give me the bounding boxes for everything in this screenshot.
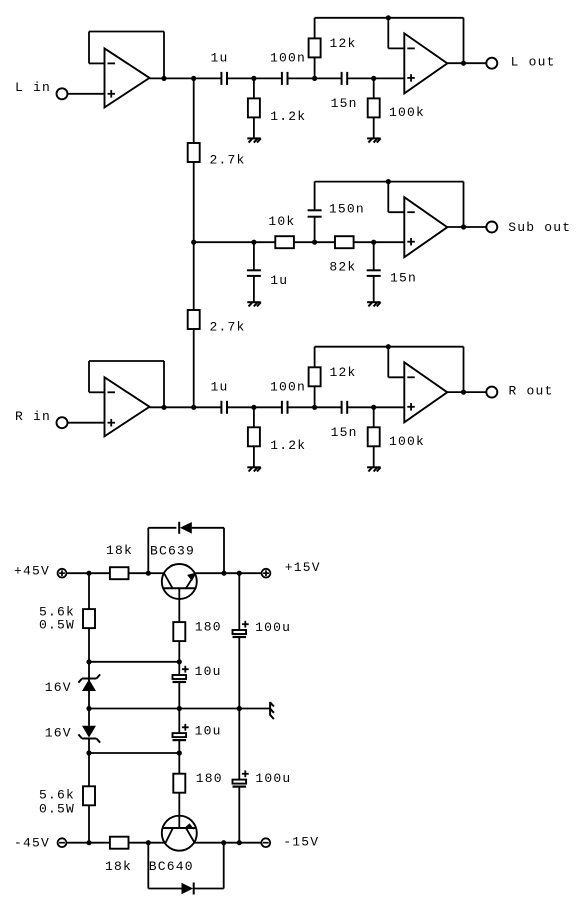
wire R 12k to top rail xyxy=(314,347,316,368)
op-amp R buffer xyxy=(105,377,150,436)
wire sub minus input xyxy=(388,211,404,213)
node mid rail / 100u xyxy=(237,706,242,711)
output terminal L xyxy=(486,58,497,69)
wire node1 link xyxy=(89,661,179,663)
wire BC640 base lead xyxy=(178,793,180,828)
label R in xyxy=(15,409,51,424)
wire into BC640 xyxy=(148,842,165,844)
node R shunt 2 xyxy=(371,405,376,410)
ground under 1.2k (L) xyxy=(247,138,260,142)
label 12k (R) xyxy=(330,365,357,380)
svg-text:180: 180 xyxy=(195,620,222,635)
wire R buffer output xyxy=(150,406,194,408)
capacitor 15n (L) xyxy=(342,72,348,85)
op-amp R output stage xyxy=(404,362,447,422)
node -15V tap xyxy=(237,840,242,845)
ground under 1u (sub) xyxy=(247,302,260,306)
svg-text:0.5W: 0.5W xyxy=(39,802,75,817)
wire 10u to mid rail xyxy=(178,682,180,709)
wire diode loop bottom a xyxy=(148,888,181,890)
label 100k (L) xyxy=(389,105,425,120)
svg-text:100k: 100k xyxy=(389,105,425,120)
node zener top xyxy=(86,659,91,664)
wire diode loop left (top) xyxy=(147,528,149,573)
wire to +15V terminal xyxy=(239,572,261,574)
terminal -45V xyxy=(58,838,67,847)
label 100k (R) xyxy=(389,434,425,449)
wire sub 150n to top rail xyxy=(314,182,316,211)
wire summing column lower xyxy=(193,329,195,407)
resistor 2.7k (upper) xyxy=(188,143,200,162)
wire diode loop right (bottom) xyxy=(223,843,225,889)
wire diode loop right (top) xyxy=(223,528,225,573)
zener diode 16V (lower) xyxy=(78,709,100,743)
wire R shunt-2 down xyxy=(373,407,375,427)
svg-text:0.5W: 0.5W xyxy=(39,618,75,633)
svg-text:L in: L in xyxy=(15,80,51,95)
svg-text:+15V: +15V xyxy=(285,560,321,575)
node L shunt 2 xyxy=(371,76,376,81)
capacitor 1u (R) xyxy=(221,401,227,414)
svg-text:1.2k: 1.2k xyxy=(270,109,306,124)
node emitter / diode loop xyxy=(221,571,226,576)
resistor 12k (R) xyxy=(309,367,321,386)
label 1u (R) xyxy=(211,379,229,394)
transistor Q2 BC640 xyxy=(162,816,197,851)
label 180 (bottom) xyxy=(196,771,223,786)
wire sub 15n to ground xyxy=(373,276,375,302)
wire sub minus drop xyxy=(387,182,389,213)
wire 5.6k bottom lead xyxy=(88,753,90,786)
wire into BC639 xyxy=(148,572,164,574)
wire R buffer feedback right xyxy=(163,361,165,407)
wire R output xyxy=(447,391,486,393)
svg-text:82k: 82k xyxy=(329,259,356,274)
svg-text:2.7k: 2.7k xyxy=(210,320,246,335)
label L out xyxy=(511,55,556,70)
svg-text:5.6k: 5.6k xyxy=(39,788,75,803)
wire R main 4 xyxy=(347,406,404,408)
node R output tap xyxy=(461,390,466,395)
svg-text:10u: 10u xyxy=(195,723,222,738)
svg-text:10u: 10u xyxy=(195,664,222,679)
wire sub main 2 xyxy=(294,241,335,243)
svg-text:-15V: -15V xyxy=(283,835,319,850)
label -15V xyxy=(283,835,319,850)
label 1u (L) xyxy=(211,51,229,66)
label 150n (sub) xyxy=(329,201,365,216)
svg-text:+45V: +45V xyxy=(14,564,50,579)
label +45V xyxy=(14,564,50,579)
svg-text:180: 180 xyxy=(196,771,223,786)
label -45V xyxy=(14,836,50,851)
wire L main 4 xyxy=(347,77,404,79)
node +45V / 5.6k xyxy=(86,571,91,576)
label 18k (bottom) xyxy=(105,859,132,874)
capacitor 150n (sub feedback) xyxy=(308,210,322,216)
wire 100u upper to mid xyxy=(238,637,240,709)
input terminal R in xyxy=(57,417,68,428)
label 1.2k (L) xyxy=(270,109,306,124)
wire 180 bottom lead xyxy=(178,753,180,774)
label 1.2k (R) xyxy=(270,438,306,453)
output terminal R xyxy=(486,387,497,398)
node sub output tap xyxy=(461,224,466,229)
wire L buffer feedback left xyxy=(88,32,90,64)
wire 5.6k to -45V rail xyxy=(88,805,90,842)
resistor 10k (sub) xyxy=(275,236,294,248)
wire 100u column top xyxy=(238,573,240,630)
resistor 12k (L) xyxy=(309,38,321,57)
wire 100u lower to -15V rail xyxy=(238,787,240,843)
svg-text:15n: 15n xyxy=(331,96,358,111)
wire R buffer feedback left xyxy=(88,361,90,392)
wire L input xyxy=(68,93,105,95)
node mid rail / 10u xyxy=(177,706,182,711)
node zener mid xyxy=(86,706,91,711)
diode (bottom, cathode right) xyxy=(182,883,194,895)
wire L shunt-2 down xyxy=(373,78,375,98)
label 12k (L) xyxy=(330,36,357,51)
wire 10u top lead xyxy=(178,662,180,675)
svg-text:15n: 15n xyxy=(390,271,417,286)
svg-text:18k: 18k xyxy=(105,859,132,874)
wire 10u lower to node2 xyxy=(178,740,180,753)
zener diode 16V (upper) xyxy=(78,674,100,708)
svg-text:-45V: -45V xyxy=(14,836,50,851)
wire R main 1 xyxy=(194,406,222,408)
wire R input xyxy=(68,422,105,424)
ground under 100k (R) xyxy=(367,467,381,471)
node R top rail minus tap xyxy=(386,344,391,349)
wire sub main 3 xyxy=(354,241,405,243)
wire sub 15n down xyxy=(373,242,375,270)
label 100n (R) xyxy=(270,379,306,394)
node summing R xyxy=(191,405,196,410)
wire R shunt-1 down xyxy=(253,407,255,427)
wire L main 2 xyxy=(227,77,282,79)
wire L buffer minus input xyxy=(89,62,105,64)
label BC639 xyxy=(150,544,195,559)
wire -45V rail a xyxy=(66,842,89,844)
node base filter top xyxy=(177,659,182,664)
node base filter bottom xyxy=(177,750,182,755)
label 15n (sub) xyxy=(390,271,417,286)
svg-text:16V: 16V xyxy=(45,680,72,695)
wire L output xyxy=(447,62,486,64)
node sub top rail minus tap xyxy=(386,179,391,184)
node L shunt 1 xyxy=(251,76,256,81)
node +15V tap xyxy=(237,571,242,576)
resistor 18k (bottom) xyxy=(110,837,129,849)
label 16V (upper) xyxy=(45,680,72,695)
node summing L xyxy=(191,76,196,81)
node R feedback cap tap xyxy=(312,405,317,410)
terminal +15V xyxy=(262,569,271,578)
node R buffer output tap xyxy=(161,405,166,410)
wire L shunt-2 to ground xyxy=(373,117,375,138)
label 16V (lower) xyxy=(45,726,72,741)
ground under 1.2k (R) xyxy=(247,467,260,471)
wire sub feedback right drop xyxy=(463,182,465,227)
ground under 100k (L) xyxy=(367,138,381,142)
wire L minus drop xyxy=(387,18,389,49)
wire R buffer minus input xyxy=(89,391,105,393)
node BC640 input xyxy=(146,840,151,845)
label 100u (lower) xyxy=(255,771,291,786)
svg-text:R out: R out xyxy=(509,384,554,399)
resistor 180 (top) xyxy=(173,622,185,641)
label 15n (L) xyxy=(331,96,358,111)
wire L main 3 xyxy=(288,77,342,79)
svg-text:1u: 1u xyxy=(211,51,229,66)
label 5.6k (bottom) xyxy=(39,788,75,803)
capacitor 100u (lower) xyxy=(233,770,249,786)
label 0.5W (bottom) xyxy=(39,802,75,817)
wire sub main 1 xyxy=(194,241,276,243)
capacitor 15n (R) xyxy=(342,401,348,414)
terminal +45V xyxy=(58,569,67,578)
wire R minus drop xyxy=(387,347,389,378)
ground under 15n (sub) xyxy=(367,302,381,306)
svg-text:10k: 10k xyxy=(268,214,295,229)
capacitor 15n (sub shunt) xyxy=(367,270,381,276)
input terminal L in xyxy=(57,88,68,99)
wire L feedback right drop xyxy=(463,18,465,63)
label +15V xyxy=(285,560,321,575)
svg-text:16V: 16V xyxy=(45,726,72,741)
wire mid rail a xyxy=(89,708,179,710)
svg-text:L out: L out xyxy=(511,55,556,70)
resistor 1.2k (R) xyxy=(248,427,260,446)
label 15n (R) xyxy=(331,425,358,440)
label 100n (L) xyxy=(270,51,306,66)
wire R shunt-2 to ground xyxy=(373,446,375,467)
label 2.7k (lower) xyxy=(210,320,246,335)
wire R main 3 xyxy=(288,406,342,408)
capacitor 100n (L) xyxy=(282,72,288,85)
svg-text:2.7k: 2.7k xyxy=(210,153,246,168)
wire R minus input xyxy=(388,376,404,378)
svg-text:BC639: BC639 xyxy=(150,544,195,559)
output terminal sub xyxy=(486,222,497,233)
wire L main 1 xyxy=(194,77,222,79)
node L buffer output tap xyxy=(161,76,166,81)
resistor 5.6k 0.5W (top) xyxy=(83,609,95,628)
capacitor 100n (R) xyxy=(282,401,288,414)
resistor 180 (bottom) xyxy=(173,774,185,793)
svg-text:Sub out: Sub out xyxy=(508,220,571,235)
wire L shunt-1 down xyxy=(253,78,255,98)
node summing mid xyxy=(191,240,196,245)
wire diode loop top a xyxy=(148,527,176,529)
svg-text:100n: 100n xyxy=(270,51,306,66)
wire L buffer feedback right xyxy=(163,32,165,79)
wire BC639 emitter rail xyxy=(196,572,240,574)
label 18k (top) xyxy=(106,543,133,558)
wire R shunt-1 to ground xyxy=(253,446,255,467)
diode (top, cathode left) xyxy=(179,522,192,534)
svg-text:1.2k: 1.2k xyxy=(270,438,306,453)
capacitor 1u (sub shunt) xyxy=(247,270,261,276)
wire sub top rail xyxy=(315,181,464,183)
wire sub 150n up xyxy=(314,217,316,243)
label 100u (upper) xyxy=(255,620,291,635)
wire L shunt-1 to ground xyxy=(253,117,255,138)
wire 180 to node1 xyxy=(178,641,180,662)
svg-text:100u: 100u xyxy=(255,620,291,635)
capacitor 10u (upper) xyxy=(173,666,189,682)
node sub 150n tap xyxy=(312,240,317,245)
node emitter / diode loop (bottom) xyxy=(221,840,226,845)
label BC640 xyxy=(149,859,194,874)
wire sub 1u down xyxy=(253,242,255,270)
wire 10u lower top lead xyxy=(178,709,180,734)
resistor 2.7k (lower) xyxy=(188,310,200,329)
wire summing column mid-lower xyxy=(193,242,195,310)
capacitor 1u (L) xyxy=(221,72,227,85)
wire BC639 base lead xyxy=(178,588,180,622)
wire summing column upper xyxy=(193,78,195,143)
svg-text:BC640: BC640 xyxy=(149,859,194,874)
label 5.6k (top) xyxy=(39,605,75,620)
svg-text:1u: 1u xyxy=(211,379,229,394)
svg-text:R in: R in xyxy=(15,409,51,424)
wire 18k to base node xyxy=(129,572,149,574)
resistor 82k (sub) xyxy=(335,236,354,248)
wire 5.6k to zener node xyxy=(88,628,90,662)
wire R main 2 xyxy=(227,406,282,408)
node -45V / 5.6k xyxy=(86,840,91,845)
wire mid rail b xyxy=(179,708,239,710)
terminal -15V xyxy=(261,838,270,847)
wire L 12k down xyxy=(314,57,316,78)
wire L 12k to top rail xyxy=(314,18,316,39)
resistor 100k (R) xyxy=(368,427,380,446)
wire L buffer feedback top xyxy=(89,31,164,33)
wire sub 1u to ground xyxy=(253,276,255,302)
wire -45V rail b xyxy=(89,842,110,844)
wire +45V rail a xyxy=(66,572,89,574)
capacitor 10u (lower) xyxy=(173,724,189,740)
node BC639 input xyxy=(146,571,151,576)
ground (mid rail) xyxy=(270,702,274,719)
wire summing column mid-upper xyxy=(193,162,195,242)
wire BC640 emitter rail xyxy=(195,842,240,844)
label 0.5W (top) xyxy=(39,618,75,633)
node zener bottom xyxy=(86,750,91,755)
wire R buffer feedback top xyxy=(89,360,164,362)
op-amp L output stage xyxy=(404,33,447,93)
resistor 5.6k 0.5W (bottom) xyxy=(83,786,95,805)
node sub shunt 2 xyxy=(371,240,376,245)
wire sub output xyxy=(447,226,486,228)
node sub shunt 1 xyxy=(251,240,256,245)
wire 5.6k top lead xyxy=(88,573,90,609)
svg-text:18k: 18k xyxy=(106,543,133,558)
label 1u (sub) xyxy=(270,273,288,288)
label R out xyxy=(509,384,554,399)
wire to -15V terminal xyxy=(239,842,261,844)
resistor 1.2k (L) xyxy=(248,98,260,117)
label 10k (sub) xyxy=(268,214,295,229)
svg-text:100k: 100k xyxy=(389,434,425,449)
resistor 18k (top) xyxy=(110,567,129,579)
label 10u (lower) xyxy=(195,723,222,738)
node L feedback cap tap xyxy=(312,76,317,81)
svg-text:15n: 15n xyxy=(331,425,358,440)
wire zener1 lead xyxy=(88,662,90,679)
wire diode loop top b xyxy=(192,527,224,529)
wire diode loop bottom b xyxy=(194,888,224,890)
wire zener2 lead xyxy=(88,739,90,754)
label 180 (top) xyxy=(195,620,222,635)
svg-text:100n: 100n xyxy=(270,379,306,394)
label Sub out xyxy=(508,220,571,235)
svg-text:12k: 12k xyxy=(330,365,357,380)
node R shunt 1 xyxy=(251,405,256,410)
wire R feedback right drop xyxy=(463,347,465,392)
transistor Q1 BC639 xyxy=(162,564,197,599)
wire L buffer output xyxy=(150,77,194,79)
wire diode loop left (bottom) xyxy=(147,843,149,889)
label L in xyxy=(15,80,51,95)
svg-text:150n: 150n xyxy=(329,201,365,216)
wire R 12k down xyxy=(314,386,316,407)
wire 18k to BC640 xyxy=(129,842,149,844)
svg-text:100u: 100u xyxy=(255,771,291,786)
svg-text:12k: 12k xyxy=(330,36,357,51)
resistor 100k (L) xyxy=(368,98,380,117)
wire +45V rail b xyxy=(89,572,110,574)
op-amp sub output stage xyxy=(404,197,447,257)
wire L minus input xyxy=(388,47,404,49)
svg-text:1u: 1u xyxy=(270,273,288,288)
capacitor 100u (upper) xyxy=(233,621,249,637)
label 10u (upper) xyxy=(195,664,222,679)
node L top rail minus tap xyxy=(386,15,391,20)
label 2.7k (upper) xyxy=(210,153,246,168)
label 82k (sub) xyxy=(329,259,356,274)
wire mid rail c xyxy=(239,708,270,710)
wire 100u column lower xyxy=(238,709,240,780)
wire R top rail xyxy=(315,346,464,348)
wire node2 link xyxy=(89,752,179,754)
op-amp L buffer xyxy=(105,48,150,107)
wire L top rail xyxy=(315,17,464,19)
node L output tap xyxy=(461,61,466,66)
